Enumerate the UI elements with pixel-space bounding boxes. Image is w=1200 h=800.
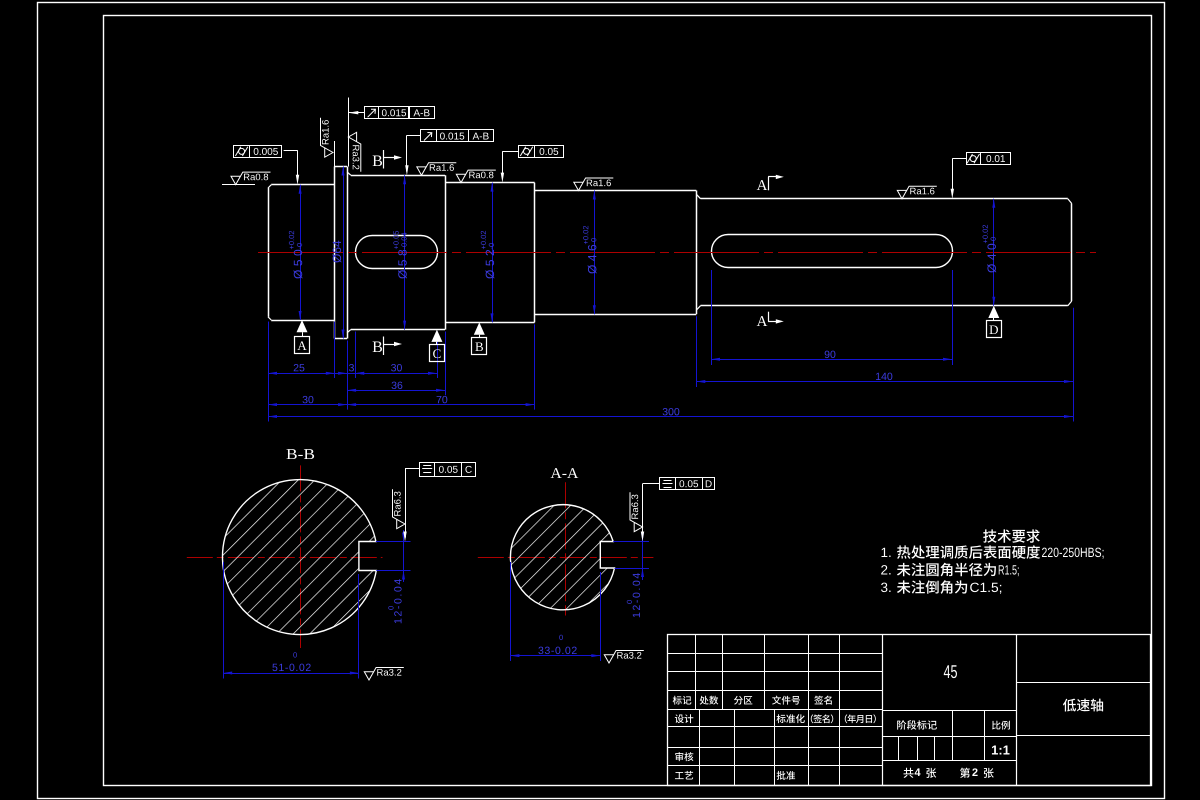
surface mark Ra1.6 collar left face xyxy=(321,118,334,158)
shaft segment 6 phi40 xyxy=(696,194,1071,310)
title block stage mark and scale xyxy=(897,720,937,730)
section A-A surface mark Ra3.2 xyxy=(604,651,644,664)
FCF circular runout 0.015 A-B first xyxy=(365,107,435,119)
surface mark Ra1.6 on phi58 xyxy=(417,163,457,176)
section mark A bottom xyxy=(757,312,784,326)
dimension 30 keyway xyxy=(355,373,437,375)
datum C xyxy=(430,330,445,362)
dimension 25 xyxy=(268,373,335,375)
section B-B surface mark Ra3.2 xyxy=(364,668,404,681)
section B-B title xyxy=(287,449,315,459)
section mark B top xyxy=(373,150,402,169)
shaft segment 1 phi50 xyxy=(268,185,335,321)
section B-B hatched circle with keyway notch xyxy=(222,480,376,635)
technical requirements heading xyxy=(983,529,1040,542)
FCF circularity 0.01 with leader xyxy=(967,153,1011,165)
title block labels row4 xyxy=(673,696,692,705)
surface mark Ra0.8 on phi52 xyxy=(456,170,496,183)
section A-A dimension 33 xyxy=(510,562,600,661)
section B-B dimension 51 xyxy=(223,562,359,679)
title block sheet count xyxy=(915,768,921,776)
FCF cylindricity 0.05 with leader xyxy=(519,146,564,158)
section A-A surface mark Ra6.3 xyxy=(630,492,643,532)
section A-A FCF symmetry 0.05 D xyxy=(660,478,715,490)
shaft segment 5 phi46 xyxy=(535,191,697,315)
keyway slot on segment 3 xyxy=(356,236,438,269)
FCF cylindricity 0.005 with leader xyxy=(234,146,282,158)
main centerline xyxy=(258,252,1096,254)
dimension phi52 xyxy=(492,183,494,323)
surface mark Ra1.6 on phi40 xyxy=(897,186,937,199)
dimension 3 xyxy=(335,364,366,375)
dimension phi64 xyxy=(343,167,345,339)
surface mark Ra3.2 collar right face xyxy=(348,132,361,172)
surface mark Ra1.6 on phi46 xyxy=(574,178,614,191)
section B-B dimension 12 xyxy=(388,530,405,623)
section mark A top xyxy=(757,175,784,191)
section mark B bottom xyxy=(373,337,402,356)
title block labels design row xyxy=(675,714,693,723)
extension line above collar right face xyxy=(348,98,350,167)
extension lines for length dimensions xyxy=(269,270,1074,422)
section A-A keyway extension lines xyxy=(613,542,649,569)
extension stub left of segment1 top edge xyxy=(222,184,255,186)
technical requirements line 1 xyxy=(882,548,891,557)
shaft collar phi64 xyxy=(335,167,348,339)
FCF circular runout 0.015 A-B second xyxy=(421,130,494,142)
technical requirements line 3 xyxy=(881,583,891,593)
datum A xyxy=(295,320,310,354)
dimension 36 xyxy=(347,390,445,392)
title block labels process row xyxy=(675,771,693,780)
dimension 140 xyxy=(696,381,1073,383)
datum B xyxy=(472,322,487,354)
section A-A centerlines xyxy=(478,482,654,615)
dimension 30 left xyxy=(268,404,347,406)
dimension 90 keyway xyxy=(711,359,952,361)
keyway slot on segment 6 xyxy=(712,235,953,268)
section A-A hatched circle with keyway notch xyxy=(510,505,614,610)
dimension 300 xyxy=(268,416,1073,418)
datum D xyxy=(987,306,1002,338)
shaft segment 4 phi52 xyxy=(445,183,535,323)
title block scale value xyxy=(992,746,1010,755)
dimension phi46 xyxy=(594,191,596,315)
section B-B centerlines xyxy=(187,465,383,648)
title block grid xyxy=(668,634,1151,785)
extension line above collar left face xyxy=(334,141,336,167)
section B-B FCF symmetry 0.05 C xyxy=(420,463,476,477)
section B-B surface mark Ra6.3 xyxy=(393,489,406,529)
surface mark Ra0.8 left xyxy=(231,172,271,185)
dimension phi50 xyxy=(300,185,302,320)
title block labels examine row xyxy=(675,752,693,761)
dimension 70 xyxy=(347,404,534,406)
title block material 45 xyxy=(944,665,957,678)
dimension phi58 xyxy=(404,175,406,329)
section B-B keyway extension lines xyxy=(376,542,411,571)
section A-A title xyxy=(551,468,579,478)
title block part name xyxy=(1063,699,1103,712)
dimension phi40 xyxy=(993,199,995,306)
section A-A dimension 12 xyxy=(627,530,644,617)
shaft segment 3 phi58 xyxy=(347,172,445,333)
technical requirements line 2 xyxy=(881,565,890,574)
